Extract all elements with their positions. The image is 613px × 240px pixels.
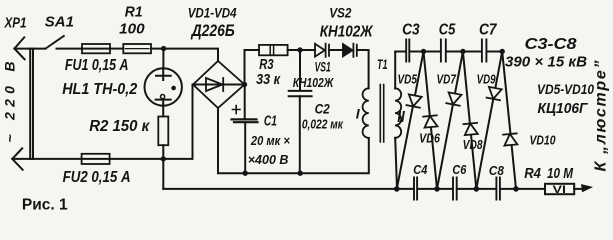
capacitor C1 20mk 400V branch xyxy=(244,85,246,119)
svg-text:С8: С8 xyxy=(489,163,505,178)
wire FU1 to R1 xyxy=(110,48,123,50)
plug XP1 bottom prong arrow xyxy=(12,148,22,169)
wire VS2 to T1 primary top xyxy=(357,50,369,88)
node junction R1/HL1 xyxy=(161,46,166,51)
wire diagonal B0 to A1 xyxy=(397,52,424,189)
wire C3 to C5 xyxy=(410,51,440,53)
svg-text:SA1: SA1 xyxy=(45,14,74,31)
top rail of multiplier xyxy=(395,51,405,53)
svg-text:VD5-VD10: VD5-VD10 xyxy=(537,82,594,97)
svg-text:0,022 мк: 0,022 мк xyxy=(302,118,344,132)
svg-text:С7: С7 xyxy=(479,21,497,38)
bottom rail of multiplier xyxy=(163,188,545,190)
node junction R2 / lower wire xyxy=(161,156,166,161)
plus sign of C1 xyxy=(233,106,241,114)
resistor R1 100 xyxy=(123,44,151,53)
plug XP1 top prong arrow xyxy=(14,37,24,59)
svg-text:КН102Ж: КН102Ж xyxy=(320,24,374,41)
svg-text:С6: С6 xyxy=(452,162,467,177)
svg-text:FU1 0,15 А: FU1 0,15 А xyxy=(65,57,129,74)
diode VD9 xyxy=(487,87,502,100)
svg-text:×400 В: ×400 В xyxy=(248,152,289,167)
svg-text:С3-С8: С3-С8 xyxy=(525,36,577,53)
svg-text:Д226Б: Д226Б xyxy=(190,22,235,40)
wire junction down to bottom rail xyxy=(162,159,164,189)
svg-text:II: II xyxy=(397,109,405,126)
capacitor C7 xyxy=(482,40,487,62)
resistor R4 10M xyxy=(545,184,574,194)
wire diagonal A2 to B2 xyxy=(463,52,476,189)
capacitor C3 xyxy=(406,40,409,62)
output arrow head xyxy=(582,185,592,192)
svg-text:ХР1: ХР1 xyxy=(4,15,27,32)
switch SA1 blade xyxy=(46,36,64,49)
node B3 xyxy=(513,186,519,192)
wire FU2 to bridge left vertex xyxy=(110,85,193,159)
wire R2 to lower AC wire xyxy=(162,145,164,159)
diode VD7 xyxy=(446,92,461,105)
fuse FU2 0,15A xyxy=(82,154,110,164)
node B1 xyxy=(434,186,440,192)
svg-text:VD7: VD7 xyxy=(437,72,457,87)
transformer T1 primary winding I xyxy=(363,88,369,138)
diode VD8 xyxy=(463,123,478,135)
svg-text:VI: VI xyxy=(553,184,567,196)
svg-text:КН102Ж: КН102Ж xyxy=(293,75,334,90)
capacitor C4 xyxy=(414,178,417,200)
node bridge DC+ vertex xyxy=(242,82,247,87)
wire R3 to node xyxy=(288,49,315,51)
wire diagonal A1 to B1 xyxy=(424,52,438,189)
svg-text:VD9: VD9 xyxy=(477,72,497,87)
svg-text:R2 150 к: R2 150 к xyxy=(89,118,150,135)
svg-text:390 × 15 кВ: 390 × 15 кВ xyxy=(505,55,587,71)
svg-text:VD6: VD6 xyxy=(419,131,441,146)
node C2 branch xyxy=(297,47,302,52)
bridge diode symbol xyxy=(193,84,245,86)
diode VD5 xyxy=(406,94,421,107)
diode VD6 xyxy=(423,115,438,127)
diode VD10 xyxy=(503,133,518,145)
transformer T1 secondary winding II xyxy=(395,88,401,138)
node A1 xyxy=(421,49,426,54)
svg-text:VD10: VD10 xyxy=(530,132,557,147)
svg-text:С4: С4 xyxy=(413,162,428,177)
transformer T1 core xyxy=(380,85,383,143)
svg-text:VS2: VS2 xyxy=(329,5,351,21)
fuse FU1 0,15A xyxy=(82,44,110,53)
svg-text:С1: С1 xyxy=(264,113,277,129)
wire DC minus rail from bridge bottom to T1 primary bottom xyxy=(218,108,369,173)
svg-text:R1: R1 xyxy=(125,3,143,20)
svg-text:33 к: 33 к xyxy=(256,71,281,88)
svg-text:VD1-VD4: VD1-VD4 xyxy=(188,4,237,20)
svg-text:С2: С2 xyxy=(315,101,330,117)
svg-text:HL1 ТН-0,2: HL1 ТН-0,2 xyxy=(62,81,137,98)
svg-text:КЦ106Г: КЦ106Г xyxy=(538,101,589,117)
svg-text:Рис. 1: Рис. 1 xyxy=(22,197,68,214)
node A2 xyxy=(460,49,465,54)
wire DC+ up and right to R3 xyxy=(245,50,260,85)
wire C7 to A3 xyxy=(487,51,502,53)
dinistor VS2 KN102Zh xyxy=(343,44,353,57)
svg-text:Т1: Т1 xyxy=(377,56,388,72)
wire lower AC from plug to FU2 xyxy=(12,158,81,160)
resistor R3 33k xyxy=(259,45,288,55)
capacitor C5 xyxy=(441,40,446,62)
wire R1 to bridge top xyxy=(151,49,218,61)
capacitor C2 0,022mk branch xyxy=(299,50,301,90)
wire diagonal B1 to A2 xyxy=(437,52,463,189)
wire diagonal B2 to A3 xyxy=(476,52,502,189)
wire secondary bottom lead to node B0 xyxy=(395,138,397,189)
svg-text:VS1: VS1 xyxy=(315,59,331,74)
resistor R2 150k xyxy=(158,117,168,146)
capacitor C8 xyxy=(496,178,500,200)
svg-text:10 М: 10 М xyxy=(547,166,574,182)
wire C5 to C7 xyxy=(447,51,481,53)
wire junction down to lamp xyxy=(162,49,164,69)
svg-text:С5: С5 xyxy=(439,21,456,38)
wire VS1 to VS2 xyxy=(329,49,343,51)
node B0 xyxy=(394,186,400,192)
node A3 xyxy=(500,49,505,54)
wire plug cord double lines xyxy=(30,49,33,159)
svg-text:FU2 0,15 А: FU2 0,15 А xyxy=(63,169,131,186)
svg-text:VD8: VD8 xyxy=(463,137,484,152)
wire lamp to R2 xyxy=(162,106,164,117)
wire diagonal A3 to B3 xyxy=(502,52,516,189)
lamp HL1 TH-0,2 neon xyxy=(145,68,182,105)
svg-text:VD5: VD5 xyxy=(398,72,418,87)
capacitor C6 xyxy=(453,178,457,200)
svg-text:100: 100 xyxy=(119,20,145,37)
wire switch to fuse FU1 xyxy=(57,48,83,50)
wire top AC from plug to switch xyxy=(14,48,45,50)
wire R4 to output arrow xyxy=(574,188,582,190)
bridge rectifier VD1-VD4 diamond xyxy=(193,61,245,108)
svg-text:20 мк ×: 20 мк × xyxy=(250,133,290,148)
wire secondary top lead to top rail xyxy=(394,52,396,89)
svg-text:R4: R4 xyxy=(524,166,541,182)
svg-text:С3: С3 xyxy=(402,21,420,38)
dinistor VS1 KN102Zh xyxy=(315,44,325,57)
node B2 xyxy=(474,186,480,192)
